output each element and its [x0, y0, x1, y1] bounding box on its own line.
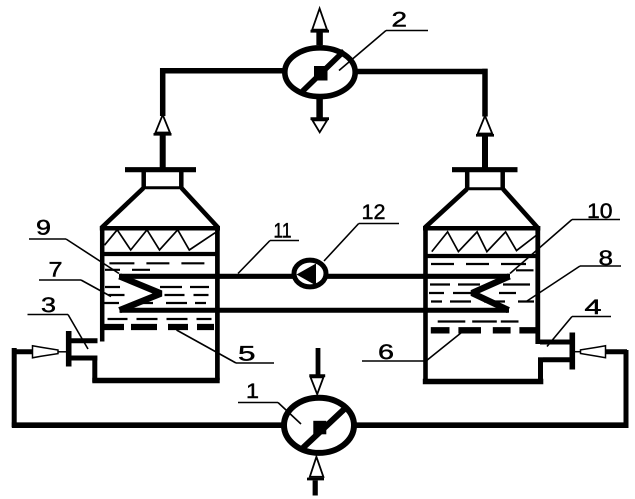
right outlet union 4: top stub [540, 340, 574, 345]
right tank neck [465, 172, 470, 190]
coil 9 in left tank [120, 276, 162, 310]
svg-text:9: 9 [36, 216, 51, 239]
left tank false bottom thick dashed line 5 [104, 324, 214, 330]
left tank flange bar [125, 167, 196, 172]
right outlet union 4: nozzle arrow [575, 351, 582, 353]
left tank demister bottom line [100, 252, 220, 256]
coil 10 in right tank [472, 276, 510, 310]
valve 2 body [285, 48, 355, 97]
left tank shoulder [102, 188, 144, 228]
valve 1 center gate square [313, 421, 326, 435]
wire: right vapor pipe upper [482, 69, 488, 117]
left tank bottom [92, 378, 219, 384]
left tank neck [141, 172, 146, 189]
leader line for label 12 [324, 224, 399, 262]
left tank water dashes [104, 263, 213, 319]
right tank right wall [535, 226, 540, 344]
right outlet bottom stub [543, 357, 574, 362]
svg-text:12: 12 [362, 201, 386, 224]
left outlet corner down [92, 356, 97, 383]
right outlet union 4: flange bar [569, 333, 575, 370]
valve 1 body [284, 398, 354, 453]
leader line for label 9 [29, 239, 119, 274]
leader line for label 6 [362, 331, 464, 362]
svg-text:4: 4 [585, 296, 602, 319]
wire: right vapor pipe lower stem [482, 137, 488, 169]
svg-text:6: 6 [378, 341, 394, 364]
wire: right riser [624, 350, 629, 427]
right tank bottom [423, 379, 544, 385]
svg-text:10: 10 [587, 200, 613, 223]
vent arrow on right vapor pipe [478, 116, 492, 134]
valve 2 top arrow [316, 31, 323, 45]
svg-text:1: 1 [246, 380, 259, 403]
right outlet union 4: stem [605, 349, 627, 354]
wire: bottom return pipe [12, 422, 629, 428]
wire: upper transfer pipe 11 left part [119, 274, 294, 279]
wire: left riser [12, 348, 17, 427]
left outlet union 3: nozzle arrow [33, 346, 59, 358]
left tank left wall [100, 226, 105, 342]
left outlet bottom stub [71, 356, 97, 361]
svg-text:8: 8 [599, 247, 614, 270]
leader line for label 3 [28, 315, 89, 350]
wire: top pipe left segment [160, 68, 290, 74]
svg-text:11: 11 [274, 219, 292, 242]
wire: top pipe right segment [350, 69, 488, 75]
right outlet corner down [538, 357, 543, 383]
leader line for label 8 [527, 266, 621, 301]
leader line for label 5 [177, 330, 275, 363]
wire: left vapor pipe lower stem [160, 136, 166, 169]
right tank shoulder [425, 189, 467, 228]
valve 1 bottom arrow [310, 457, 324, 477]
leader line for label 4 [547, 317, 611, 347]
valve 1 spindle diagonal [303, 407, 347, 448]
wire: upper transfer pipe 11 right part [326, 274, 510, 279]
valve 2 spindle diagonal [303, 51, 345, 91]
wire: lower transfer pipe [120, 308, 510, 313]
left tank top line [100, 226, 220, 231]
leader line for label 1 [238, 403, 301, 425]
right tank water dashes [429, 264, 537, 322]
leader line for label 2 [339, 31, 428, 71]
right tank false bottom thick dashed line 6 [431, 327, 537, 333]
svg-text:3: 3 [41, 294, 56, 317]
left tank demister zigzag [105, 230, 216, 250]
right tank flange bar [452, 167, 518, 172]
right tank top line [423, 226, 540, 231]
pump 12 body [294, 260, 326, 287]
left outlet union 3: stem [12, 349, 33, 354]
svg-text:2: 2 [392, 8, 408, 31]
svg-text:5: 5 [238, 343, 256, 366]
valve 1 top arrow [316, 348, 321, 375]
right tank left wall [423, 226, 428, 380]
wire: left vapor pipe upper [160, 68, 166, 116]
leader line for label 7 [39, 280, 111, 297]
left outlet union 3: flange bar [66, 331, 72, 367]
right tank demister bottom line [424, 254, 541, 258]
left outlet top stub [71, 338, 98, 343]
valve 2 bottom arrow [316, 98, 323, 118]
svg-text:7: 7 [49, 259, 63, 282]
pump 12 impeller triangle [297, 264, 317, 286]
valve 2 center gate square [314, 66, 328, 81]
left tank right wall [215, 226, 220, 380]
leader line for label 11 [238, 241, 299, 274]
leader line for label 10 [510, 220, 620, 274]
vent arrow on left vapor pipe [156, 115, 170, 133]
right tank demister zigzag [432, 232, 538, 252]
